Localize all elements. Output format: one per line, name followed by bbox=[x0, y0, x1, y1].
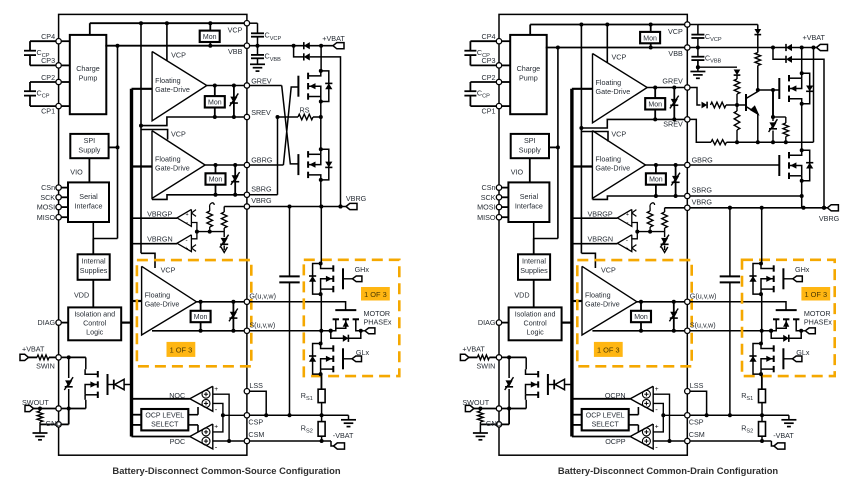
wire VBRGP input bbox=[572, 217, 618, 219]
svg-text:SELECT: SELECT bbox=[151, 422, 179, 429]
wire S(u,v,w) external bbox=[690, 330, 771, 332]
svg-text:Floating: Floating bbox=[585, 290, 611, 299]
1 OF 3 label (bridge) bbox=[801, 287, 830, 301]
crossover wire GBRG to upper gate bbox=[283, 87, 298, 165]
pin GBRG bbox=[685, 162, 690, 167]
svg-text:VBRGN: VBRGN bbox=[588, 235, 614, 244]
control bus vertical bbox=[570, 89, 573, 437]
base pulldown resistor bbox=[736, 105, 738, 111]
svg-text:Battery-Disconnect Common-Drai: Battery-Disconnect Common-Drain Configur… bbox=[558, 465, 779, 476]
wire G(u,v,w) external bbox=[250, 302, 346, 310]
monitor Mon3 bbox=[191, 311, 211, 322]
svg-text:Supplies: Supplies bbox=[520, 266, 548, 275]
pin CP2 bbox=[56, 79, 61, 84]
svg-text:SPI: SPI bbox=[524, 136, 536, 145]
resistor RS1 bbox=[761, 374, 763, 389]
wire SREV jog bbox=[141, 117, 244, 126]
svg-text:Gate-Drive: Gate-Drive bbox=[596, 87, 631, 96]
svg-text:Gate-Drive: Gate-Drive bbox=[145, 299, 180, 308]
svg-text:Mon: Mon bbox=[209, 177, 223, 184]
svg-text:Gate-Drive: Gate-Drive bbox=[155, 85, 190, 94]
wire VCP feed vertical bbox=[140, 23, 142, 253]
wire OCP box outputs bbox=[188, 414, 198, 416]
disconnect switch FET bbox=[85, 357, 87, 369]
svg-text:VBRG: VBRG bbox=[692, 197, 713, 206]
pin SREV bbox=[685, 117, 690, 122]
wire CP2 bbox=[30, 81, 56, 83]
wire VIO bbox=[88, 158, 90, 182]
wire GREV bbox=[647, 87, 684, 89]
zener clamp gate driver 3 bbox=[232, 302, 234, 331]
monitor Mon VCP/VBB bbox=[200, 31, 220, 42]
pin G(u,v,w) bbox=[685, 299, 690, 304]
svg-text:CSP: CSP bbox=[689, 417, 704, 426]
wire GND internal bbox=[502, 423, 509, 425]
svg-text:1 OF 3: 1 OF 3 bbox=[170, 345, 193, 354]
bias diode from VBB ground bbox=[698, 66, 737, 68]
pin CSn bbox=[56, 185, 61, 190]
wire comparator reference bbox=[632, 223, 638, 239]
wire VBRGN input bbox=[132, 243, 178, 245]
wire VBRG rail bbox=[250, 206, 346, 208]
SPI supply box bbox=[70, 134, 108, 158]
pin CSM bbox=[685, 438, 690, 443]
wire +VBAT to SREV tie bbox=[813, 48, 815, 143]
pin CSP bbox=[244, 413, 249, 418]
svg-text:+: + bbox=[185, 246, 188, 252]
comparator OCPP bbox=[630, 424, 653, 449]
ground C_VBB bbox=[696, 65, 700, 69]
pin SWIN bbox=[56, 355, 61, 360]
svg-text:+: + bbox=[214, 386, 218, 393]
svg-text:GBRG: GBRG bbox=[692, 156, 714, 165]
svg-text:GBRG: GBRG bbox=[251, 156, 273, 165]
ground CSP bbox=[348, 415, 350, 420]
svg-text:VIO: VIO bbox=[511, 168, 524, 177]
wire CSM external bbox=[250, 440, 331, 442]
wire bus to gate-drive 2 input bbox=[132, 165, 153, 167]
svg-text:VBRG: VBRG bbox=[251, 196, 272, 205]
svg-text:CSM: CSM bbox=[248, 430, 264, 439]
resistor divider R upper bbox=[650, 203, 655, 208]
wire VBB rail bbox=[105, 45, 247, 47]
svg-text:Mon: Mon bbox=[649, 177, 663, 184]
svg-text:Floating: Floating bbox=[596, 78, 622, 87]
wire VCP feed to gate-drive 2 bbox=[141, 130, 168, 140]
comparator NOC bbox=[190, 386, 213, 411]
svg-text:CSP: CSP bbox=[248, 417, 263, 426]
wire SWIN internal bbox=[502, 356, 526, 358]
wire bus to gate-drive 1 input bbox=[132, 88, 153, 90]
svg-text:Supply: Supply bbox=[78, 145, 100, 154]
svg-text:MOSI: MOSI bbox=[37, 203, 55, 212]
svg-text:+: + bbox=[214, 424, 218, 431]
svg-text:Logic: Logic bbox=[86, 328, 104, 337]
pin SCK bbox=[56, 195, 61, 200]
resistor RS1 bbox=[321, 374, 323, 389]
comparator VBRGN bbox=[177, 235, 191, 252]
svg-text:VCP: VCP bbox=[668, 27, 683, 36]
wire S(u,v,w) inside bbox=[592, 330, 684, 332]
internal supplies box bbox=[518, 254, 550, 279]
wire +VBAT to REV FET bbox=[320, 46, 322, 71]
pin MOSI bbox=[496, 204, 501, 209]
wire LSS external bbox=[250, 391, 266, 415]
wire common source bbox=[320, 102, 322, 150]
isolation and control logic box bbox=[68, 307, 121, 340]
svg-text:SWIN: SWIN bbox=[477, 362, 496, 371]
svg-text:GREV: GREV bbox=[251, 76, 272, 85]
svg-text:Gate-Drive: Gate-Drive bbox=[585, 299, 620, 308]
svg-text:GLx: GLx bbox=[796, 348, 810, 357]
wire collector to FET gate bbox=[758, 89, 780, 91]
svg-text:VBB: VBB bbox=[668, 49, 683, 58]
wire VBB to +VBAT bbox=[250, 45, 294, 47]
svg-text:Serial: Serial bbox=[79, 192, 98, 201]
svg-text:SWOUT: SWOUT bbox=[462, 398, 489, 407]
wire VCP feed to gate-drive 1 bbox=[166, 23, 168, 60]
svg-text:VCP: VCP bbox=[601, 265, 616, 274]
svg-text:CP4: CP4 bbox=[41, 32, 55, 41]
svg-text:Logic: Logic bbox=[527, 328, 545, 337]
svg-text:SBRG: SBRG bbox=[692, 186, 713, 195]
pin DIAG bbox=[56, 320, 61, 325]
svg-text:Isolation and: Isolation and bbox=[74, 310, 115, 319]
wire logic to bus bbox=[562, 322, 572, 324]
comparator VBRGN bbox=[617, 235, 631, 252]
svg-text:VBB: VBB bbox=[228, 47, 243, 56]
wire internal supplies up bbox=[533, 239, 535, 255]
svg-text:VBRGP: VBRGP bbox=[147, 209, 172, 218]
wire GBRG external stub bbox=[250, 164, 284, 166]
svg-text:CP1: CP1 bbox=[482, 106, 496, 115]
svg-text:CSn: CSn bbox=[482, 183, 496, 192]
wire GREV external stub bbox=[250, 85, 282, 87]
svg-text:MOSI: MOSI bbox=[477, 203, 495, 212]
svg-text:VIO: VIO bbox=[70, 168, 83, 177]
resistor divider R upper bbox=[210, 203, 215, 208]
svg-text:GHx: GHx bbox=[795, 265, 810, 274]
1-of-3 dashed box (gate driver) bbox=[137, 260, 251, 366]
svg-text:GHx: GHx bbox=[355, 265, 370, 274]
svg-text:Floating: Floating bbox=[155, 76, 181, 85]
wire GBRG to bridge FET gate bbox=[690, 164, 779, 166]
wire VBB feed vertical bbox=[557, 48, 559, 239]
wire bus to gate-drive 1 input bbox=[572, 88, 593, 90]
svg-text:Floating: Floating bbox=[595, 154, 621, 163]
wire POC output bbox=[132, 436, 190, 438]
svg-text:RS: RS bbox=[300, 106, 310, 115]
terminal +VBAT (right) bbox=[817, 44, 828, 50]
svg-text:VCP: VCP bbox=[161, 265, 176, 274]
bias resistor bbox=[734, 79, 740, 94]
resistor from VBRG bbox=[664, 208, 666, 212]
charge pump box bbox=[510, 35, 547, 114]
pin VBRG bbox=[685, 205, 690, 210]
capacitor C_VCP bbox=[690, 24, 698, 26]
bulk capacitor VBRG bbox=[289, 207, 291, 277]
svg-text:-: - bbox=[626, 219, 628, 226]
wire SWOUT bbox=[474, 408, 496, 410]
svg-text:OCP LEVEL: OCP LEVEL bbox=[145, 413, 184, 420]
resistor from VBRG bbox=[223, 207, 225, 213]
IC outline bbox=[499, 14, 687, 455]
capacitor C_CP upper bbox=[29, 41, 31, 51]
svg-text:-VBAT: -VBAT bbox=[333, 431, 354, 440]
pin SREV bbox=[244, 114, 249, 119]
gate clamp zener (right) bbox=[772, 90, 774, 117]
svg-text:VCP: VCP bbox=[612, 53, 627, 62]
pin MISO bbox=[496, 215, 501, 220]
gate driver 2 (floating gate-drive) bbox=[592, 131, 645, 199]
svg-text:POC: POC bbox=[170, 437, 186, 446]
svg-text:CP2: CP2 bbox=[41, 73, 55, 82]
SPI supply box bbox=[511, 134, 549, 158]
pin SWIN bbox=[496, 355, 501, 360]
bulk capacitor VBRG bbox=[729, 208, 731, 277]
capacitor C_CP upper bbox=[469, 41, 471, 51]
gate driver 2 (floating gate-drive) bbox=[152, 131, 205, 199]
wire CP1 bbox=[470, 105, 496, 107]
comparator VBRGP bbox=[177, 209, 191, 226]
wire CSM to comparators bbox=[653, 394, 669, 441]
wire bus to OCP box bbox=[572, 414, 582, 416]
svg-text:Interface: Interface bbox=[75, 202, 103, 211]
wire SREV jog bbox=[581, 119, 684, 128]
svg-text:Pump: Pump bbox=[79, 74, 98, 83]
wire GND bbox=[40, 423, 56, 425]
gate diode bbox=[108, 384, 114, 386]
capacitor C_VBB bbox=[257, 46, 259, 55]
collector resistor bbox=[755, 53, 761, 66]
svg-text:SREV: SREV bbox=[663, 119, 683, 128]
1 OF 3 label (driver) bbox=[594, 342, 623, 357]
svg-text:GND: GND bbox=[46, 419, 62, 428]
wire CSM external bbox=[690, 440, 771, 442]
pin GND bbox=[496, 422, 501, 427]
svg-text:SELECT: SELECT bbox=[592, 422, 620, 429]
wire SWIN internal bbox=[62, 356, 86, 358]
svg-text:Mon: Mon bbox=[194, 314, 208, 321]
wire G(u,v,w) inside bbox=[197, 301, 244, 303]
wire +VBAT entry bbox=[294, 45, 333, 47]
pin VCP bbox=[685, 22, 690, 27]
wire VCP feed to gate-drive 1 bbox=[606, 25, 608, 63]
wire CSM to comparators bbox=[213, 394, 229, 441]
svg-text:CP1: CP1 bbox=[41, 106, 55, 115]
wire VBB to +VBAT (right) bbox=[773, 47, 817, 49]
svg-text:G(u,v,w): G(u,v,w) bbox=[690, 292, 717, 301]
IC outline bbox=[59, 14, 247, 455]
VCP feed diode chain bbox=[698, 24, 758, 26]
svg-text:Mon: Mon bbox=[634, 314, 648, 321]
crossover wire GREV to lower gate bbox=[282, 86, 299, 164]
pin CP1 bbox=[496, 103, 501, 108]
gate driver 1 (floating gate-drive) bbox=[593, 54, 648, 123]
reverse diode upper (right) bbox=[785, 44, 787, 51]
gate driver 1 (floating gate-drive) bbox=[152, 52, 207, 121]
series resistor SREV bbox=[711, 140, 727, 145]
capacitor C_CP lower bbox=[469, 82, 471, 91]
svg-text:CP2: CP2 bbox=[482, 73, 496, 82]
wire bus to gate-drive 2 input bbox=[572, 165, 593, 167]
svg-text:Control: Control bbox=[83, 319, 107, 328]
wire CP pins to charge pump bbox=[62, 40, 70, 42]
zener to negative rail bbox=[664, 232, 666, 237]
pin DIAG bbox=[496, 320, 501, 325]
svg-text:-VBAT: -VBAT bbox=[773, 431, 794, 440]
phase FET (motor disconnect) bbox=[776, 309, 797, 311]
pin SBRG bbox=[244, 192, 249, 197]
pin GND bbox=[56, 422, 61, 427]
svg-text:DIAG: DIAG bbox=[38, 318, 56, 327]
svg-text:SBRG: SBRG bbox=[251, 185, 272, 194]
1 OF 3 label (bridge) bbox=[361, 287, 390, 301]
terminal SWOUT bbox=[25, 405, 34, 411]
wire SREV to SBRG tie bbox=[277, 117, 279, 195]
terminal MOTOR PHASEx bbox=[801, 330, 805, 332]
svg-text:G(u,v,w): G(u,v,w) bbox=[249, 292, 276, 301]
svg-text:Mon: Mon bbox=[203, 34, 217, 41]
wire bus to gate-drive 3 input bbox=[132, 300, 142, 302]
pin G(u,v,w) bbox=[244, 299, 249, 304]
svg-text:SWOUT: SWOUT bbox=[22, 398, 49, 407]
zener SWIN-SWOUT bbox=[508, 357, 510, 378]
wire comparator reference bbox=[191, 223, 197, 239]
1-of-3 dashed box (gate driver) bbox=[577, 260, 691, 366]
svg-text:GND: GND bbox=[486, 419, 502, 428]
svg-text:OCP LEVEL: OCP LEVEL bbox=[586, 413, 625, 420]
serial interface box bbox=[508, 182, 549, 222]
pin VBRG bbox=[244, 204, 249, 209]
wire VBRG inside bbox=[224, 206, 244, 208]
comparator OCPN bbox=[630, 386, 653, 411]
ground C_VBB bbox=[250, 63, 265, 65]
wire VBB feed vertical bbox=[117, 46, 119, 239]
svg-text:Mon: Mon bbox=[643, 35, 657, 42]
svg-text:Gate-Drive: Gate-Drive bbox=[595, 163, 630, 172]
zener clamp gate driver 1 bbox=[233, 86, 235, 118]
wire bus to gate-drive 3 input bbox=[572, 300, 582, 302]
svg-text:SREV: SREV bbox=[251, 108, 271, 117]
comparator POC bbox=[190, 424, 213, 449]
svg-text:VBRG: VBRG bbox=[819, 214, 840, 223]
wire VCP feed to gate-drive 2 bbox=[581, 132, 608, 142]
svg-text:VCP: VCP bbox=[611, 130, 626, 139]
disconnect switch FET bbox=[525, 357, 527, 369]
pin CSP bbox=[685, 413, 690, 418]
svg-text:SPI: SPI bbox=[84, 136, 96, 145]
wire S(u,v,w) inside bbox=[152, 330, 244, 332]
terminal MOTOR PHASEx bbox=[361, 330, 365, 332]
svg-text:+: + bbox=[625, 246, 628, 252]
pass transistor Q1 (NPN) bbox=[745, 94, 747, 111]
low-side FET GLx bbox=[342, 348, 344, 369]
monitor Mon VCP/VBB bbox=[640, 32, 660, 43]
pin VBB bbox=[244, 43, 249, 48]
terminal SWOUT bbox=[465, 405, 474, 411]
svg-text:SCK: SCK bbox=[481, 193, 496, 202]
pin LSS bbox=[685, 389, 690, 394]
svg-text:+VBAT: +VBAT bbox=[22, 345, 45, 354]
svg-text:Interface: Interface bbox=[515, 202, 543, 211]
monitor Mon2 bbox=[206, 173, 226, 184]
terminal +VBAT bbox=[333, 43, 344, 49]
svg-text:Supplies: Supplies bbox=[80, 266, 108, 275]
pin CP2 bbox=[496, 79, 501, 84]
1-of-3 dashed box (half bridge) bbox=[742, 260, 835, 376]
ground symbol bottom-left bbox=[479, 424, 481, 433]
wire SBRG extended bbox=[690, 195, 801, 197]
svg-text:CSn: CSn bbox=[41, 183, 55, 192]
monitor Mon3 bbox=[631, 311, 651, 322]
wire OCPN output bbox=[572, 398, 630, 400]
resistor SWIN bbox=[29, 356, 38, 358]
wire CSP to comparators bbox=[653, 403, 663, 432]
wire VBB to serial interface bbox=[534, 222, 558, 239]
svg-text:VBRGN: VBRGN bbox=[147, 235, 173, 244]
reverse diode upper bbox=[303, 42, 305, 49]
wire SREV extended bbox=[690, 119, 711, 142]
bridge-disconnect FET (lower) bbox=[297, 154, 299, 175]
pin CP3 bbox=[496, 63, 501, 68]
svg-text:Internal: Internal bbox=[82, 257, 106, 266]
svg-text:Isolation and: Isolation and bbox=[515, 310, 556, 319]
svg-text:VCP: VCP bbox=[171, 51, 186, 60]
svg-text:+: + bbox=[626, 212, 629, 218]
wire VCP rail bbox=[529, 25, 531, 35]
pin CP1 bbox=[56, 103, 61, 108]
svg-text:VCP: VCP bbox=[171, 130, 186, 139]
wire CP4 bbox=[470, 40, 496, 42]
terminal VBRG bbox=[827, 205, 838, 211]
internal supplies box bbox=[78, 254, 110, 279]
svg-text:Control: Control bbox=[524, 319, 548, 328]
charge pump box bbox=[70, 35, 107, 114]
svg-text:+: + bbox=[186, 212, 189, 218]
wire VDD bbox=[533, 280, 535, 308]
gate driver 3 (floating gate-drive) bbox=[582, 266, 637, 335]
svg-text:1 OF 3: 1 OF 3 bbox=[597, 345, 620, 354]
wire CP4 bbox=[30, 40, 56, 42]
reverse diode lower branch bbox=[294, 46, 304, 57]
wire OCP box outputs bbox=[629, 414, 639, 416]
RS resistor bbox=[278, 116, 299, 118]
wire VCP rail bbox=[89, 23, 91, 35]
phase FET (motor disconnect) bbox=[335, 309, 356, 311]
capacitor C_VCP bbox=[250, 22, 258, 24]
wire GBRG bbox=[205, 164, 244, 166]
wire CP2 bbox=[470, 81, 496, 83]
wire SPI supply to VBB line bbox=[109, 146, 118, 148]
serial interface box bbox=[68, 182, 109, 222]
wire GREV bbox=[207, 85, 244, 87]
wire SBRG jog bbox=[152, 195, 244, 200]
zener SWIN-SWOUT bbox=[68, 357, 70, 378]
resistor SWOUT-GND bbox=[39, 409, 41, 412]
zener clamp gate driver 2 bbox=[234, 165, 236, 195]
wire logic to bus bbox=[121, 322, 131, 324]
svg-text:CP4: CP4 bbox=[482, 32, 496, 41]
resistor RS2 bbox=[321, 415, 323, 421]
capacitor C_VBB bbox=[697, 48, 699, 57]
svg-text:+: + bbox=[655, 386, 659, 393]
svg-text:VBRG: VBRG bbox=[346, 194, 367, 203]
gate terminal GLx bbox=[783, 358, 792, 360]
svg-text:LSS: LSS bbox=[690, 381, 704, 390]
high-side FET GHx bbox=[761, 208, 763, 264]
wire OCPP output bbox=[572, 436, 630, 438]
